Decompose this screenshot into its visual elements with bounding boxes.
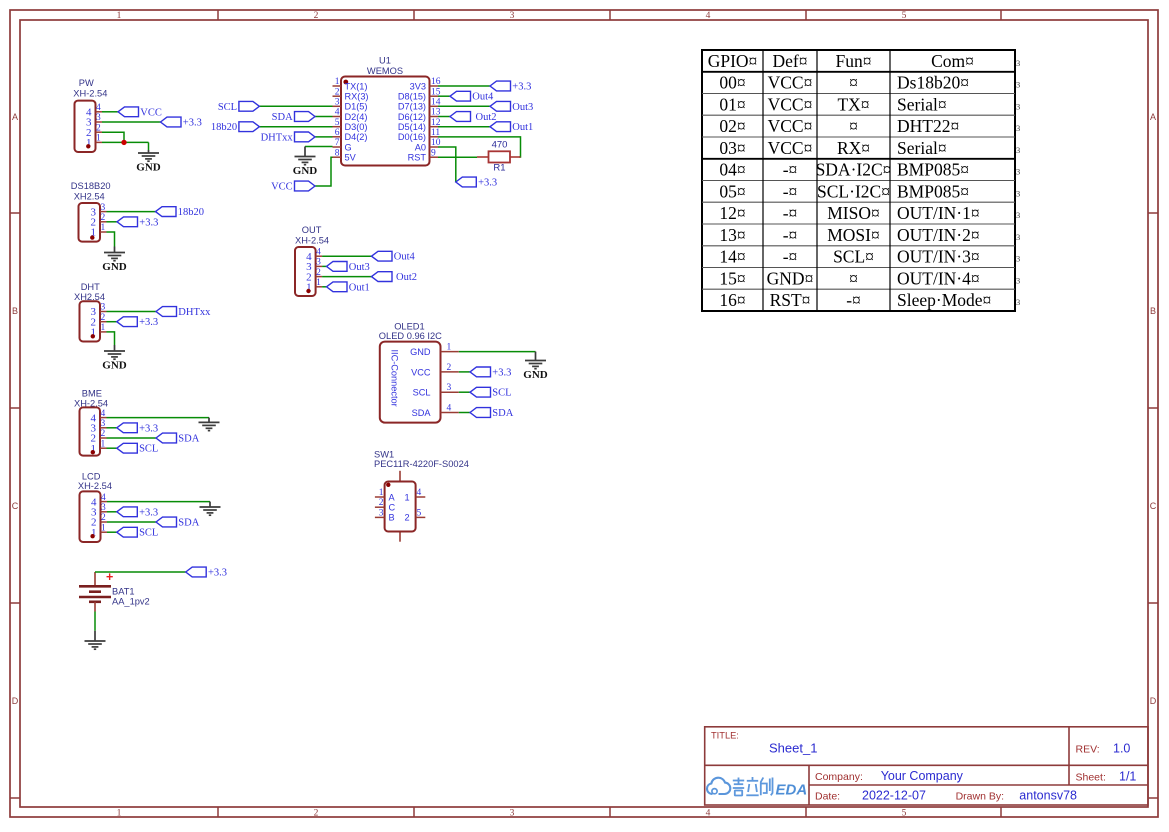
ground (BME) bbox=[199, 418, 220, 431]
wire U1 pin15 to Out4 bbox=[438, 95, 450, 97]
svg-text:3V3: 3V3 bbox=[410, 81, 426, 91]
svg-text:7: 7 bbox=[335, 138, 340, 148]
svg-text:RST¤: RST¤ bbox=[770, 290, 811, 310]
svg-text:Sheet:: Sheet: bbox=[1076, 772, 1106, 784]
svg-text:Def¤: Def¤ bbox=[773, 51, 808, 71]
svg-text:antonsv78: antonsv78 bbox=[1019, 789, 1077, 803]
svg-text:470: 470 bbox=[492, 140, 508, 151]
wire BME pin1 to SCL bbox=[107, 447, 117, 449]
net flag Out2 bbox=[450, 112, 471, 122]
svg-text:18b20: 18b20 bbox=[178, 207, 204, 218]
connector LCD bbox=[78, 472, 112, 543]
wire OUT pin4 to Out4 bbox=[322, 255, 371, 257]
wire PW pin2 elbow bbox=[102, 132, 124, 142]
svg-text:VCC¤: VCC¤ bbox=[768, 138, 813, 158]
svg-text:-¤: -¤ bbox=[783, 225, 798, 245]
ground GND (DHT) bbox=[104, 345, 125, 359]
svg-text:C: C bbox=[1150, 501, 1157, 511]
svg-text:Company:: Company: bbox=[815, 771, 863, 783]
svg-text:A: A bbox=[1150, 112, 1156, 122]
svg-text:2: 2 bbox=[314, 809, 319, 819]
svg-text:3: 3 bbox=[1016, 297, 1020, 307]
svg-text:Serial¤: Serial¤ bbox=[897, 138, 947, 158]
svg-text:C: C bbox=[12, 501, 19, 511]
svg-text:-¤: -¤ bbox=[846, 290, 861, 310]
svg-text:1: 1 bbox=[101, 323, 106, 333]
svg-text:4: 4 bbox=[335, 108, 340, 118]
svg-text:G: G bbox=[345, 142, 352, 152]
connector BME bbox=[74, 388, 108, 455]
net flag SCL (LCD) bbox=[117, 527, 138, 537]
wire DHT pin1 to GND bbox=[107, 332, 115, 345]
wire DS18B20 pin2 to +3.3 bbox=[107, 221, 118, 223]
svg-text:EDA: EDA bbox=[776, 782, 808, 799]
svg-text:RST: RST bbox=[408, 153, 427, 163]
ground (LCD) bbox=[200, 502, 221, 516]
svg-text:3: 3 bbox=[101, 303, 106, 313]
svg-text:3: 3 bbox=[1016, 188, 1020, 198]
svg-text:+3.3: +3.3 bbox=[139, 317, 158, 328]
ground GND (OLED) bbox=[525, 352, 546, 369]
net flag VCC bbox=[118, 107, 139, 117]
svg-text:+3.3: +3.3 bbox=[139, 507, 158, 518]
svg-text:VCC¤: VCC¤ bbox=[768, 116, 813, 136]
svg-text:2: 2 bbox=[96, 123, 101, 133]
svg-text:Serial¤: Serial¤ bbox=[897, 94, 947, 114]
svg-text:Out3: Out3 bbox=[349, 262, 370, 273]
svg-text:PEC11R-4220F-S0024: PEC11R-4220F-S0024 bbox=[374, 459, 469, 469]
svg-text:13¤: 13¤ bbox=[719, 225, 745, 245]
wire U1 pin14 to Out3 bbox=[438, 105, 490, 107]
svg-text:+3.3: +3.3 bbox=[512, 82, 531, 93]
svg-text:1: 1 bbox=[101, 439, 106, 449]
svg-text:4: 4 bbox=[706, 11, 711, 21]
svg-text:1: 1 bbox=[335, 77, 340, 87]
wire down to GND bbox=[148, 142, 150, 150]
svg-text:2: 2 bbox=[101, 213, 106, 223]
wire PW pin4 to VCC bbox=[102, 111, 118, 113]
svg-text:2: 2 bbox=[101, 429, 106, 439]
svg-text:¤: ¤ bbox=[849, 116, 858, 136]
svg-text:GND: GND bbox=[136, 162, 161, 174]
svg-text:Out3: Out3 bbox=[512, 102, 533, 113]
svg-text:-¤: -¤ bbox=[783, 203, 798, 223]
wire BME pin3 to +3.3 bbox=[107, 427, 117, 429]
svg-text:GND: GND bbox=[102, 261, 127, 273]
svg-text:SDA·I2C¤: SDA·I2C¤ bbox=[816, 160, 892, 180]
net flag +3.3 (OLED) bbox=[470, 367, 491, 377]
wire BAT1 + to +3.3 bbox=[95, 571, 186, 573]
svg-text:D4(2): D4(2) bbox=[345, 132, 368, 142]
wire DHTxx to U1 pin6 bbox=[315, 136, 333, 138]
svg-text:3: 3 bbox=[1016, 254, 1020, 264]
battery BAT1 AA_1pv2 bbox=[79, 570, 150, 612]
svg-text:D0(16): D0(16) bbox=[398, 132, 426, 142]
svg-text:SCL·I2C¤: SCL·I2C¤ bbox=[817, 181, 890, 201]
svg-text:3: 3 bbox=[1016, 275, 1020, 285]
svg-text:Out1: Out1 bbox=[349, 282, 370, 293]
svg-text:1: 1 bbox=[447, 343, 452, 353]
svg-text:SCL¤: SCL¤ bbox=[833, 247, 874, 267]
net flag +3.3 (BME) bbox=[117, 423, 138, 433]
net flag SCL (BME) bbox=[117, 443, 138, 453]
svg-text:02¤: 02¤ bbox=[719, 116, 745, 136]
net flag +3.3 (DS18B20) bbox=[117, 217, 138, 227]
svg-text:XH-2.54: XH-2.54 bbox=[295, 235, 329, 245]
wire SDA to U1 pin4 bbox=[315, 116, 333, 118]
net flag 18b20 bbox=[239, 122, 260, 132]
svg-text:2: 2 bbox=[335, 87, 340, 97]
IC OLED1 OLED 0.96 I2C bbox=[379, 321, 459, 422]
svg-text:3: 3 bbox=[316, 258, 321, 268]
svg-text:A0: A0 bbox=[415, 142, 426, 152]
svg-text:TITLE:: TITLE: bbox=[711, 730, 739, 740]
wire OUT pin2 to Out2 bbox=[322, 276, 371, 278]
ground GND (U1) bbox=[295, 147, 316, 165]
svg-text:2: 2 bbox=[379, 498, 384, 508]
svg-text:2: 2 bbox=[316, 268, 321, 278]
svg-text:BAT1: BAT1 bbox=[112, 587, 135, 597]
svg-text:SCL: SCL bbox=[139, 528, 158, 539]
svg-text:DHT22¤: DHT22¤ bbox=[897, 116, 959, 136]
svg-text:OUT/IN·1¤: OUT/IN·1¤ bbox=[897, 203, 980, 223]
wire PW pin1 to GND bbox=[102, 141, 149, 143]
wire DS18B20 pin1 to GND bbox=[107, 232, 115, 247]
net flag DHTxx bbox=[156, 307, 177, 317]
svg-text:2: 2 bbox=[447, 363, 452, 373]
svg-text:R1: R1 bbox=[493, 163, 505, 174]
svg-text:XH-2.54: XH-2.54 bbox=[78, 481, 112, 491]
svg-text:2: 2 bbox=[314, 11, 319, 21]
svg-text:1/1: 1/1 bbox=[1119, 770, 1136, 784]
svg-text:DHT: DHT bbox=[81, 282, 100, 292]
wire U1 pin11 D0(16) to R1 right bbox=[438, 137, 521, 157]
svg-text:3: 3 bbox=[1016, 232, 1020, 242]
svg-text:1: 1 bbox=[379, 488, 384, 498]
svg-text:WEMOS: WEMOS bbox=[367, 66, 403, 76]
svg-text:12¤: 12¤ bbox=[719, 203, 745, 223]
svg-text:+3.3: +3.3 bbox=[478, 178, 497, 189]
svg-text:Date:: Date: bbox=[815, 791, 840, 803]
svg-text:4: 4 bbox=[706, 809, 711, 819]
wire LCD pin2 to SDA bbox=[107, 521, 156, 523]
svg-text:GND: GND bbox=[293, 165, 318, 177]
svg-text:IIC-Connector: IIC-Connector bbox=[390, 350, 400, 407]
wire OLED pin3 to SCL bbox=[459, 391, 470, 393]
svg-text:-¤: -¤ bbox=[783, 160, 798, 180]
net flag Out1 (OUT) bbox=[327, 282, 348, 292]
svg-text:VCC: VCC bbox=[411, 367, 431, 377]
svg-text:SDA: SDA bbox=[412, 408, 432, 418]
svg-text:05¤: 05¤ bbox=[719, 181, 745, 201]
net flag +3.3 (DHT) bbox=[117, 317, 138, 327]
wire OUT pin1 to Out1 bbox=[322, 286, 326, 288]
svg-text:4: 4 bbox=[101, 409, 106, 419]
svg-text:D: D bbox=[1150, 696, 1157, 706]
IC U1 WEMOS bbox=[333, 56, 441, 166]
svg-text:3: 3 bbox=[1016, 58, 1020, 68]
svg-text:OUT: OUT bbox=[302, 225, 322, 235]
wire OLED pin1 to GND bbox=[459, 351, 536, 353]
svg-text:3: 3 bbox=[101, 503, 106, 513]
EasyEDA (JLC EDA) logo bbox=[707, 777, 807, 799]
wire BME pin4 to GND bbox=[107, 417, 210, 419]
svg-text:GND¤: GND¤ bbox=[767, 268, 814, 288]
wire 18b20 to U1 pin5 bbox=[259, 126, 332, 128]
wire DHT pin3 to DHTxx bbox=[107, 311, 157, 313]
wire U1 pin13 to Out2 bbox=[438, 116, 450, 118]
net flag VCC (U1 5V) bbox=[295, 181, 316, 191]
svg-text:14¤: 14¤ bbox=[719, 247, 745, 267]
svg-text:DHTxx: DHTxx bbox=[178, 307, 211, 318]
svg-text:1: 1 bbox=[101, 223, 106, 233]
svg-text:3: 3 bbox=[510, 809, 515, 819]
svg-text:-¤: -¤ bbox=[783, 247, 798, 267]
svg-text:1: 1 bbox=[101, 523, 106, 533]
svg-text:Sheet_1: Sheet_1 bbox=[769, 741, 817, 756]
svg-text:4: 4 bbox=[417, 488, 422, 498]
svg-text:RX¤: RX¤ bbox=[837, 138, 870, 158]
svg-text:15¤: 15¤ bbox=[719, 268, 745, 288]
net flag Out3 (OUT) bbox=[327, 262, 348, 272]
net flag SDA (BME) bbox=[156, 433, 177, 443]
svg-text:SDA: SDA bbox=[178, 434, 199, 445]
wire OLED pin4 to SDA bbox=[459, 412, 470, 414]
net flag SCL bbox=[239, 101, 260, 111]
svg-text:5: 5 bbox=[902, 809, 907, 819]
svg-text:5V: 5V bbox=[345, 153, 357, 163]
svg-text:Sleep·Mode¤: Sleep·Mode¤ bbox=[897, 290, 991, 310]
wire SCL to U1 pin3 bbox=[259, 105, 332, 107]
svg-text:OUT/IN·2¤: OUT/IN·2¤ bbox=[897, 225, 980, 245]
svg-text:Out2: Out2 bbox=[476, 112, 497, 123]
svg-text:+3.3: +3.3 bbox=[208, 568, 227, 579]
svg-text:SCL: SCL bbox=[139, 444, 158, 455]
svg-text:A: A bbox=[12, 112, 18, 122]
svg-text:00¤: 00¤ bbox=[719, 73, 745, 93]
svg-text:-¤: -¤ bbox=[783, 181, 798, 201]
svg-text:GND: GND bbox=[523, 369, 548, 381]
svg-text:3: 3 bbox=[1016, 145, 1020, 155]
wire U1 pin16 3V3 to +3.3 bbox=[438, 85, 490, 87]
wire BME pin2 to SDA bbox=[107, 437, 157, 439]
svg-text:3: 3 bbox=[335, 98, 340, 108]
svg-text:Com¤: Com¤ bbox=[931, 51, 974, 71]
svg-text:+3.3: +3.3 bbox=[139, 217, 158, 228]
svg-text:D7(13): D7(13) bbox=[398, 102, 426, 112]
svg-text:01¤: 01¤ bbox=[719, 94, 745, 114]
svg-text:2: 2 bbox=[101, 513, 106, 523]
svg-text:D2(4): D2(4) bbox=[345, 112, 368, 122]
wire U1 pin9 RST to R1 left bbox=[438, 156, 477, 158]
svg-text:VCC¤: VCC¤ bbox=[768, 94, 813, 114]
svg-text:1: 1 bbox=[117, 11, 122, 21]
wire BAT1 - to GND bbox=[94, 612, 96, 631]
svg-text:BMP085¤: BMP085¤ bbox=[897, 181, 969, 201]
wire OUT pin3 to Out3 bbox=[322, 265, 326, 267]
svg-text:5: 5 bbox=[902, 11, 907, 21]
svg-text:SDA: SDA bbox=[272, 112, 293, 123]
svg-text:OUT/IN·3¤: OUT/IN·3¤ bbox=[897, 247, 980, 267]
svg-text:3: 3 bbox=[447, 383, 452, 393]
resistor R1 470 bbox=[477, 140, 521, 174]
net flag Out4 (OUT) bbox=[372, 251, 393, 261]
wire DS18B20 pin3 to 18b20 bbox=[107, 211, 156, 213]
svg-text:VCC: VCC bbox=[140, 107, 162, 118]
svg-text:VCC¤: VCC¤ bbox=[768, 73, 813, 93]
svg-text:VCC: VCC bbox=[271, 182, 293, 193]
wire VCC to U1 pin8 5V bbox=[315, 157, 333, 186]
svg-text:3: 3 bbox=[379, 508, 384, 518]
net flag +3.3 (BAT1) bbox=[186, 567, 207, 577]
svg-text:3: 3 bbox=[1016, 80, 1020, 90]
svg-text:1: 1 bbox=[96, 134, 101, 144]
svg-text:Fun¤: Fun¤ bbox=[836, 51, 872, 71]
net flag Out1 bbox=[490, 122, 511, 132]
svg-text:Out1: Out1 bbox=[512, 122, 533, 133]
net flag +3.3 bbox=[161, 117, 182, 127]
svg-text:2022-12-07: 2022-12-07 bbox=[862, 789, 926, 803]
svg-text:D: D bbox=[12, 696, 19, 706]
frame column numbers bbox=[117, 11, 907, 819]
svg-text:XH2.54: XH2.54 bbox=[74, 191, 105, 201]
svg-text:SDA: SDA bbox=[178, 518, 199, 529]
svg-text:3: 3 bbox=[96, 113, 101, 123]
net flag +3.3 (LCD) bbox=[117, 507, 138, 517]
svg-text:Ds18b20¤: Ds18b20¤ bbox=[897, 73, 969, 93]
net flag SCL (OLED) bbox=[470, 387, 491, 397]
svg-text:6: 6 bbox=[335, 128, 340, 138]
svg-text:3: 3 bbox=[101, 203, 106, 213]
svg-text:18b20: 18b20 bbox=[211, 122, 237, 133]
svg-text:03¤: 03¤ bbox=[719, 138, 745, 158]
net flag SDA (LCD) bbox=[156, 517, 177, 527]
ground GND (DS18B20) bbox=[104, 247, 125, 261]
svg-text:3: 3 bbox=[1016, 123, 1020, 133]
net flag +3.3 (3V3) bbox=[490, 81, 511, 91]
svg-text:B: B bbox=[12, 306, 18, 316]
svg-text:2: 2 bbox=[405, 513, 410, 523]
wire DHT pin2 to +3.3 bbox=[107, 321, 117, 323]
svg-text:OUT/IN·4¤: OUT/IN·4¤ bbox=[897, 268, 980, 288]
svg-text:XH-2.54: XH-2.54 bbox=[73, 88, 107, 98]
net flag DHTxx bbox=[295, 132, 316, 142]
svg-text:16¤: 16¤ bbox=[719, 290, 745, 310]
title block bbox=[705, 727, 1148, 805]
svg-text:3: 3 bbox=[1016, 167, 1020, 177]
svg-text:4: 4 bbox=[447, 404, 452, 414]
svg-text:SCL: SCL bbox=[492, 388, 511, 399]
wire PW pin3 to +3.3 bbox=[102, 121, 161, 123]
svg-text:1: 1 bbox=[316, 278, 321, 288]
svg-text:A: A bbox=[389, 492, 396, 502]
connector DS18B20 bbox=[71, 181, 111, 242]
wire U1 pin10 A0 down to +3.3 bbox=[438, 147, 456, 182]
svg-text:B: B bbox=[1150, 306, 1156, 316]
wire LCD pin4 to GND bbox=[107, 501, 210, 503]
svg-text:2: 2 bbox=[101, 313, 106, 323]
svg-text:8: 8 bbox=[335, 148, 340, 158]
junction PW pins 1-2 bbox=[121, 140, 126, 145]
net flag Out4 bbox=[450, 91, 471, 101]
svg-text:3: 3 bbox=[101, 419, 106, 429]
svg-text:SCL: SCL bbox=[218, 102, 237, 113]
svg-text:GND: GND bbox=[410, 347, 431, 357]
svg-text:AA_1pv2: AA_1pv2 bbox=[112, 596, 150, 606]
svg-text:RX(3): RX(3) bbox=[345, 92, 369, 102]
svg-text:4: 4 bbox=[316, 247, 321, 257]
wire LCD pin3 to +3.3 bbox=[107, 511, 117, 513]
net flag Out3 bbox=[490, 101, 511, 111]
connector OUT bbox=[295, 225, 329, 296]
svg-text:Drawn By:: Drawn By: bbox=[956, 791, 1004, 803]
svg-text:3: 3 bbox=[1016, 210, 1020, 220]
svg-text:REV:: REV: bbox=[1076, 744, 1100, 756]
svg-text:SCL: SCL bbox=[413, 388, 431, 398]
connector PW bbox=[73, 78, 107, 152]
svg-text:4: 4 bbox=[101, 493, 106, 503]
net flag +3.3 (A0) bbox=[456, 177, 477, 187]
net flag Out2 (OUT) bbox=[372, 272, 393, 282]
svg-text:LCD: LCD bbox=[82, 472, 101, 482]
svg-text:GND: GND bbox=[102, 360, 127, 372]
svg-text:Out4: Out4 bbox=[472, 92, 494, 103]
switch SW1 PEC11R-4220F-S0024 bbox=[374, 450, 469, 542]
svg-text:C: C bbox=[389, 503, 396, 513]
svg-text:BMP085¤: BMP085¤ bbox=[897, 160, 969, 180]
svg-text:GPIO¤: GPIO¤ bbox=[708, 51, 758, 71]
svg-text:D6(12): D6(12) bbox=[398, 112, 426, 122]
svg-text:Out4: Out4 bbox=[394, 252, 416, 263]
frame row letters bbox=[12, 112, 1157, 706]
ground GND (PW) bbox=[138, 150, 159, 161]
ground (BAT1) bbox=[85, 631, 106, 649]
svg-text:1.0: 1.0 bbox=[1113, 742, 1130, 756]
svg-text:SDA: SDA bbox=[492, 408, 513, 419]
svg-text:Your Company: Your Company bbox=[881, 769, 964, 783]
svg-text:4: 4 bbox=[96, 103, 101, 113]
wire U1 pin12 to Out1 bbox=[438, 126, 490, 128]
svg-text:Out2: Out2 bbox=[396, 272, 417, 283]
svg-text:TX(1): TX(1) bbox=[345, 81, 368, 91]
svg-text:D8(15): D8(15) bbox=[398, 92, 426, 102]
svg-text:¤: ¤ bbox=[849, 73, 858, 93]
svg-text:+3.3: +3.3 bbox=[492, 367, 511, 378]
svg-text:¤: ¤ bbox=[849, 268, 858, 288]
svg-text:B: B bbox=[389, 513, 395, 523]
svg-text:3: 3 bbox=[510, 11, 515, 21]
net flag 18b20 bbox=[156, 207, 177, 217]
wire U1 pin7 G to GND bbox=[305, 146, 333, 148]
net flag SDA (OLED) bbox=[470, 408, 491, 418]
svg-text:5: 5 bbox=[417, 508, 422, 518]
svg-text:U1: U1 bbox=[379, 56, 391, 66]
svg-text:TX¤: TX¤ bbox=[837, 94, 869, 114]
wire OLED pin2 to +3.3 bbox=[459, 371, 470, 373]
svg-text:BME: BME bbox=[82, 388, 102, 398]
svg-text:+3.3: +3.3 bbox=[183, 118, 202, 129]
svg-text:DHTxx: DHTxx bbox=[261, 132, 294, 143]
svg-text:5: 5 bbox=[335, 118, 340, 128]
svg-text:9: 9 bbox=[431, 148, 436, 158]
connector DHT bbox=[74, 282, 107, 342]
GPIO table bbox=[702, 50, 1020, 311]
svg-text:04¤: 04¤ bbox=[719, 160, 745, 180]
svg-text:PW: PW bbox=[79, 78, 94, 88]
svg-text:1: 1 bbox=[117, 809, 122, 819]
svg-text:MISO¤: MISO¤ bbox=[827, 203, 880, 223]
svg-text:DS18B20: DS18B20 bbox=[71, 181, 111, 191]
